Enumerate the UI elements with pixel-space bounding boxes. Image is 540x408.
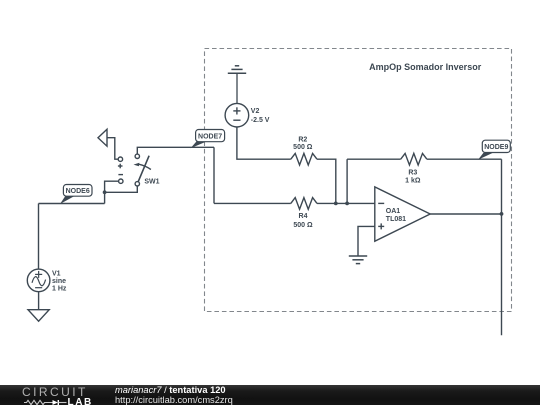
wire V2 bottom lead: [237, 127, 291, 159]
wire V1 bottom lead: [38, 292, 40, 310]
voltage source V2: [225, 103, 270, 127]
wire branch to switch pole: [105, 186, 138, 192]
earth ground above V2: [228, 66, 246, 104]
wire op-amp output: [430, 213, 501, 215]
wire riser to voltmeter minus: [105, 181, 119, 203]
voltage source V1: [27, 269, 67, 293]
wire R4 right lead: [317, 202, 375, 204]
wire R3 drop to inverting input: [346, 159, 348, 203]
svg-text:sine: sine: [52, 278, 66, 285]
dashed subcircuit box: [205, 49, 512, 312]
ground below V1: [28, 310, 49, 322]
wire NODE6 horizontal: [39, 203, 105, 205]
wire NODE7 down: [213, 147, 215, 203]
svg-text:NODE7: NODE7: [198, 134, 222, 141]
junction dot at R3 join: [345, 202, 349, 206]
voltmeter VM1 probe arrow: [98, 129, 123, 183]
svg-text:R4: R4: [299, 213, 308, 220]
junction dot: [103, 190, 107, 194]
svg-text:500 Ω: 500 Ω: [293, 144, 313, 151]
wire R4 left lead: [214, 202, 291, 204]
svg-text:NODE9: NODE9: [484, 144, 508, 151]
resistor R2: [291, 153, 317, 165]
junction dot at output: [500, 212, 504, 216]
svg-text:V2: V2: [251, 108, 260, 115]
logo resistor-diode squiggle: [24, 398, 74, 406]
node NODE9 flag: [478, 140, 510, 160]
svg-text:AmpOp Somador Inversor: AmpOp Somador Inversor: [369, 62, 482, 72]
wire R3 right lead: [427, 158, 502, 160]
switch SW1: [134, 154, 160, 186]
svg-text:500 Ω: 500 Ω: [293, 222, 313, 229]
svg-text:SW1: SW1: [144, 179, 159, 186]
wire output column: [501, 159, 503, 335]
svg-text:1 Hz: 1 Hz: [52, 286, 67, 293]
svg-text:TL081: TL081: [386, 216, 406, 223]
earth ground at + input: [349, 256, 367, 264]
svg-text:V1: V1: [52, 270, 61, 277]
node NODE7 flag: [191, 130, 225, 149]
svg-text:OA1: OA1: [386, 208, 401, 215]
wire switch top to NODE7: [137, 147, 214, 154]
wire R3 left lead: [347, 158, 401, 160]
junction dot at R2/R4 join: [334, 202, 338, 206]
node NODE6 flag: [60, 185, 92, 205]
svg-text:-2.5 V: -2.5 V: [251, 117, 270, 124]
svg-text:R2: R2: [298, 136, 307, 143]
wire R2 right lead: [317, 159, 336, 203]
wire V1 top lead: [38, 204, 40, 270]
resistor R4: [291, 198, 317, 210]
svg-text:NODE6: NODE6: [66, 188, 90, 195]
op-amp OA1: [375, 187, 430, 241]
wire non-inverting input: [358, 226, 375, 256]
svg-text:1 kΩ: 1 kΩ: [405, 178, 421, 185]
resistor R3: [401, 153, 427, 165]
svg-text:R3: R3: [408, 170, 417, 177]
